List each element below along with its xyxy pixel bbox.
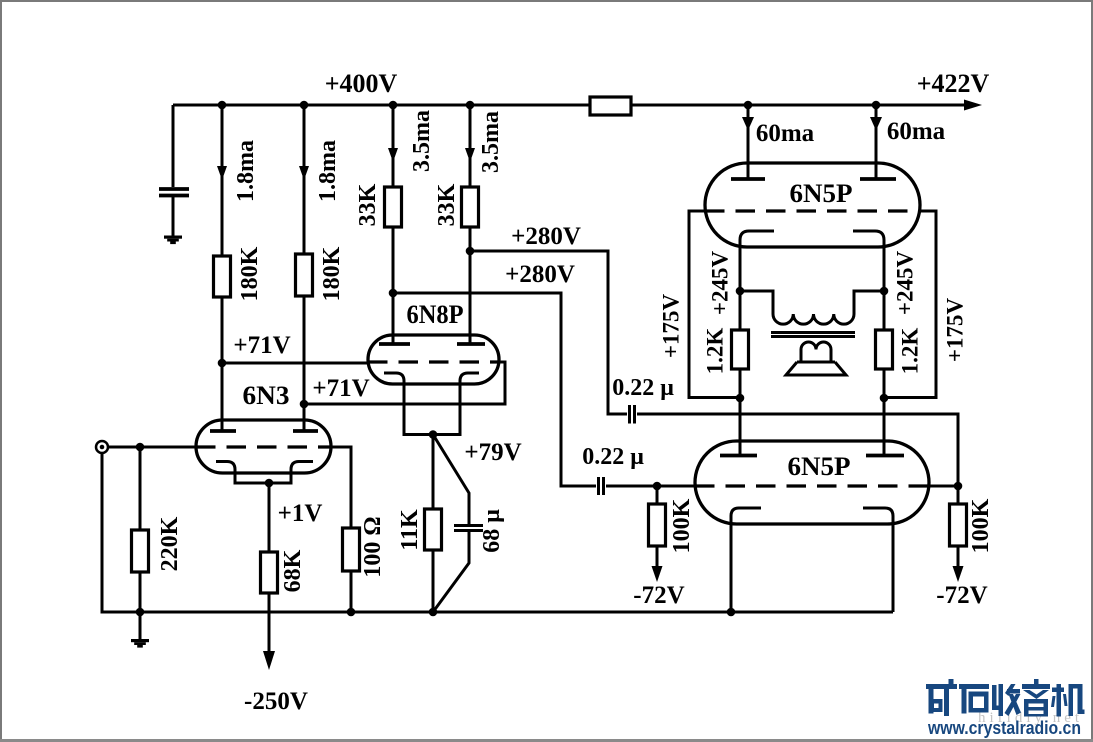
svg-text:+175V: +175V: [943, 298, 968, 363]
svg-text:+71V: +71V: [312, 375, 369, 402]
svg-text:220K: 220K: [157, 516, 183, 571]
svg-text:1.8ma: 1.8ma: [315, 140, 341, 202]
svg-text:6N3: 6N3: [243, 381, 290, 410]
svg-text:3.5ma: 3.5ma: [409, 110, 435, 172]
svg-text:+175V: +175V: [659, 294, 684, 359]
svg-text:1.8ma: 1.8ma: [233, 140, 259, 202]
svg-text:+400V: +400V: [325, 69, 398, 98]
svg-text:+71V: +71V: [233, 332, 290, 359]
svg-text:100K: 100K: [968, 498, 994, 553]
svg-text:6N8P: 6N8P: [407, 300, 464, 329]
svg-text:33K: 33K: [355, 183, 381, 226]
svg-text:+79V: +79V: [464, 439, 521, 466]
svg-text:6N5P: 6N5P: [788, 452, 851, 481]
svg-text:1.2K: 1.2K: [898, 328, 923, 375]
svg-text:60ma: 60ma: [756, 120, 815, 147]
svg-text:100K: 100K: [669, 498, 695, 553]
svg-text:11K: 11K: [397, 509, 423, 551]
svg-text:+280V: +280V: [505, 261, 575, 288]
svg-text:6N5P: 6N5P: [790, 179, 853, 208]
svg-text:+245V: +245V: [893, 251, 918, 316]
svg-text:+245V: +245V: [708, 251, 733, 316]
svg-text:+1V: +1V: [278, 500, 323, 527]
svg-text:60ma: 60ma: [887, 118, 946, 145]
svg-text:-72V: -72V: [936, 582, 987, 609]
svg-text:33K: 33K: [434, 183, 460, 226]
svg-text:180K: 180K: [237, 246, 263, 301]
svg-text:0.22 μ: 0.22 μ: [582, 444, 644, 470]
svg-text:100 Ω: 100 Ω: [360, 516, 386, 577]
svg-text:-72V: -72V: [633, 582, 684, 609]
svg-text:3.5ma: 3.5ma: [478, 111, 504, 173]
svg-text:www.crystalradio.cn: www.crystalradio.cn: [927, 718, 1081, 738]
svg-text:180K: 180K: [319, 246, 345, 301]
svg-text:0.22 μ: 0.22 μ: [612, 375, 674, 401]
svg-text:1.2K: 1.2K: [703, 328, 728, 375]
svg-text:+280V: +280V: [511, 223, 581, 250]
svg-text:+422V: +422V: [917, 69, 990, 98]
svg-text:68K: 68K: [280, 549, 306, 592]
svg-text:68 μ: 68 μ: [479, 509, 505, 553]
svg-text:-250V: -250V: [244, 688, 308, 715]
